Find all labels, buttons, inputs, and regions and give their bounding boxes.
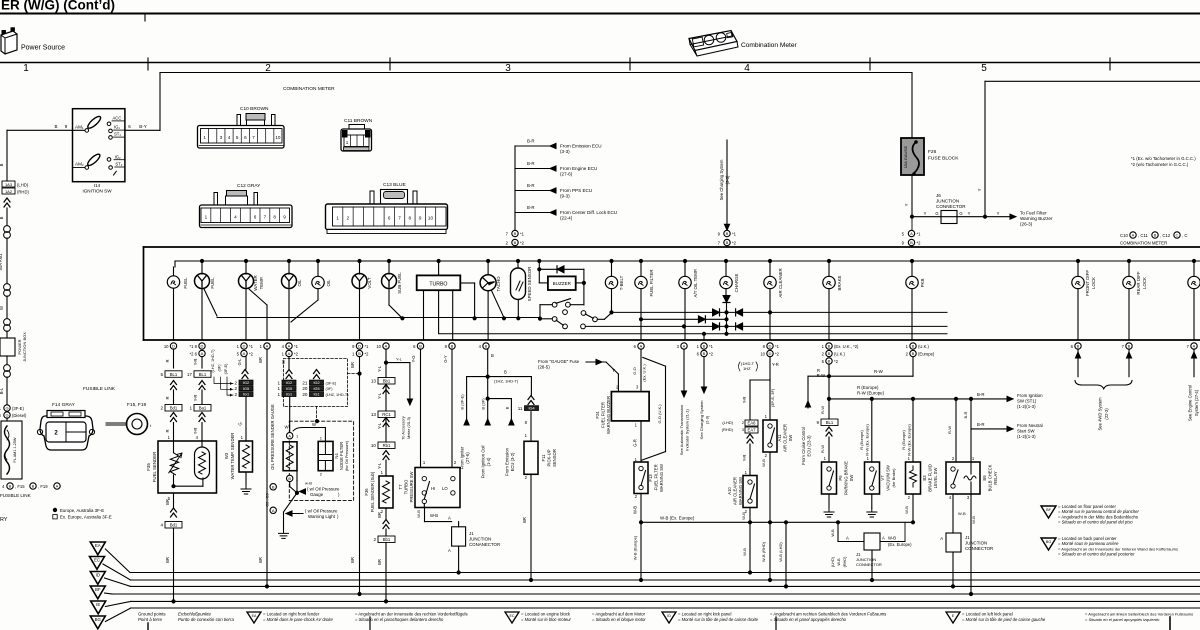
svg-text:TURBO: TURBO bbox=[404, 479, 409, 494]
svg-text:TEMP.: TEMP. bbox=[259, 277, 264, 290]
svg-text:(Ex. U.K.): (Ex. U.K.) bbox=[642, 364, 647, 382]
svg-text:A: A bbox=[846, 536, 849, 541]
svg-text:(1-2)(1-3): (1-2)(1-3) bbox=[1017, 404, 1036, 409]
svg-text:From Engine ECU: From Engine ECU bbox=[560, 166, 597, 171]
wire 5th column drop bbox=[984, 81, 986, 216]
svg-text:*2: *2 bbox=[834, 359, 839, 364]
svg-text:R-W (Europe): R-W (Europe) bbox=[857, 391, 885, 396]
wire fuel diag bbox=[204, 289, 217, 316]
legend EC engine block bbox=[505, 612, 519, 623]
svg-text:10: 10 bbox=[164, 344, 169, 349]
vacuum sw V7 box bbox=[865, 462, 880, 494]
svg-text:RY: RY bbox=[0, 517, 8, 523]
svg-text:WATER: WATER bbox=[253, 275, 258, 290]
svg-text:*2: *2 bbox=[709, 351, 714, 356]
fusible link FL AM1 box bbox=[6, 418, 8, 421]
svg-text:B: B bbox=[419, 344, 422, 349]
svg-text:G: G bbox=[238, 422, 243, 425]
svg-text:P6: P6 bbox=[838, 475, 843, 481]
svg-text:Y-R: Y-R bbox=[193, 395, 198, 402]
svg-text:A: A bbox=[288, 351, 291, 356]
gauge OIL main bbox=[287, 259, 290, 262]
svg-text:FRONT DIFF: FRONT DIFF bbox=[1085, 270, 1090, 296]
svg-text:Y-L: Y-L bbox=[377, 422, 382, 429]
wire drop to ignition switch bbox=[159, 73, 161, 131]
junction pair circles bbox=[6, 356, 8, 364]
svg-text:B: B bbox=[703, 344, 706, 349]
svg-text:*1: *1 bbox=[709, 344, 714, 349]
svg-text:ACC: ACC bbox=[113, 115, 122, 120]
svg-text:(1HZ, 1HD-T): (1HZ, 1HD-T) bbox=[326, 393, 350, 397]
svg-text:= Monté sur le bloc-moteur: = Monté sur le bloc-moteur bbox=[521, 617, 572, 622]
connector 1A3 (LHD) bbox=[2, 181, 15, 187]
svg-text:TACHO: TACHO bbox=[496, 276, 501, 292]
svg-text:B9: B9 bbox=[982, 475, 987, 481]
svg-text:13: 13 bbox=[371, 379, 377, 384]
svg-text:Indicator System (21-1): Indicator System (21-1) bbox=[685, 409, 690, 451]
column header rule bbox=[0, 62, 1200, 64]
svg-text:, C12: , C12 bbox=[1160, 233, 1171, 238]
sub fuel sender F36 box bbox=[379, 476, 393, 508]
svg-text:1: 1 bbox=[203, 135, 206, 140]
svg-text:*2: *2 bbox=[365, 351, 370, 356]
svg-text:B: B bbox=[912, 351, 915, 356]
connector stack IG 21/20 bbox=[314, 370, 320, 379]
svg-text:AM₁: AM₁ bbox=[75, 125, 84, 130]
svg-text:BRAKE FLUID: BRAKE FLUID bbox=[928, 464, 933, 491]
svg-text:B-R: B-R bbox=[527, 139, 535, 144]
svg-text:IE: IE bbox=[96, 602, 100, 607]
svg-text:B: B bbox=[828, 359, 831, 364]
gauge WATER TEMP bbox=[244, 259, 247, 262]
svg-text:JUNCTION: JUNCTION bbox=[965, 541, 987, 546]
svg-text:G: G bbox=[959, 211, 962, 216]
ground triangle EA bbox=[90, 542, 105, 555]
fuse 50A AM1 bbox=[6, 238, 8, 283]
svg-text:From Cruise Control: From Cruise Control bbox=[801, 427, 806, 465]
svg-text:B: B bbox=[451, 344, 454, 349]
svg-text:R: R bbox=[165, 359, 170, 362]
air cleaner warning sw A10 box bbox=[743, 476, 757, 508]
water temp sender W3 box bbox=[239, 441, 253, 472]
wire to IG4 bbox=[530, 377, 532, 395]
wire fuse drop bbox=[911, 73, 913, 138]
vacuum sw column bbox=[871, 399, 873, 462]
wire wb europe bbox=[640, 494, 642, 581]
branch cruise control bbox=[807, 376, 809, 408]
svg-text:1A2: 1A2 bbox=[5, 189, 13, 194]
svg-text:W-B (Europe): W-B (Europe) bbox=[633, 535, 638, 560]
svg-text:*1 8: *1 8 bbox=[190, 344, 198, 349]
svg-text:6: 6 bbox=[244, 135, 247, 140]
svg-text:From Emission ECU: From Emission ECU bbox=[560, 144, 602, 149]
wire yl column bbox=[385, 349, 387, 378]
wire band lineC bottom bbox=[439, 333, 947, 335]
svg-text:Y-R: Y-R bbox=[742, 397, 747, 404]
branch from igniter bbox=[466, 377, 468, 419]
gauge PKB bbox=[910, 259, 913, 262]
svg-text:BUZZER: BUZZER bbox=[553, 281, 572, 286]
svg-text:Ba1: Ba1 bbox=[199, 406, 207, 411]
svg-text:= Angebracht am rechten Seite: = Angebracht am rechten Seitenblech des … bbox=[770, 612, 886, 617]
svg-text:AIR CLEANER: AIR CLEANER bbox=[783, 424, 788, 452]
svg-text:= Angebracht am linken Seiten: = Angebracht am linken Seitenblech des V… bbox=[1085, 612, 1193, 617]
svg-text:Point à terre: Point à terre bbox=[138, 617, 162, 622]
wire see charging below bbox=[703, 357, 705, 389]
svg-text:BR: BR bbox=[522, 517, 527, 523]
svg-text:BG: BG bbox=[1046, 540, 1052, 544]
tick below ground points bbox=[147, 623, 149, 630]
svg-text:= Located on right front fend: = Located on right front fender bbox=[263, 612, 320, 617]
svg-text:BF: BF bbox=[1046, 508, 1052, 512]
svg-text:BL1: BL1 bbox=[199, 372, 207, 377]
wire turbo right bbox=[460, 282, 474, 284]
svg-text:D: D bbox=[201, 344, 204, 349]
gauge FRONT DIFF LOCK bbox=[1076, 259, 1079, 262]
svg-text:From “GAUGE” Fuse: From “GAUGE” Fuse bbox=[538, 359, 580, 364]
note BF located on floor panel center bbox=[1041, 506, 1056, 518]
svg-text:TURBO: TURBO bbox=[429, 281, 447, 287]
svg-text:*1: *1 bbox=[775, 344, 780, 349]
svg-text:B: B bbox=[703, 351, 706, 356]
pins 5/9 into meter bbox=[910, 215, 913, 218]
svg-text:1: 1 bbox=[277, 380, 280, 385]
svg-text:9: 9 bbox=[419, 216, 422, 221]
svg-text:20: 20 bbox=[302, 386, 308, 391]
svg-text:= Situado en el parachoques d: = Situado en el parachoques delantero de… bbox=[355, 617, 444, 622]
svg-text:CHARGE: CHARGE bbox=[734, 274, 739, 293]
branch from emission ecu bbox=[488, 398, 512, 400]
svg-text:W-B: W-B bbox=[837, 558, 841, 566]
svg-text:OIL PRESSURE SENDER GAUGE: OIL PRESSURE SENDER GAUGE bbox=[270, 404, 275, 470]
svg-text:A: A bbox=[1132, 233, 1135, 238]
wire buzzer top bbox=[538, 259, 541, 262]
svg-text:ER (W/G) (Cont’d): ER (W/G) (Cont’d) bbox=[1, 0, 115, 13]
svg-text:SW: SW bbox=[788, 435, 793, 442]
oil pressure pin A bbox=[289, 397, 291, 433]
svg-text:D: D bbox=[769, 344, 772, 349]
svg-text:1: 1 bbox=[23, 63, 29, 74]
svg-text:*1: *1 bbox=[520, 232, 525, 237]
svg-text:Power Source: Power Source bbox=[21, 45, 65, 52]
svg-text:A: A bbox=[683, 344, 686, 349]
wire see automatic transmission bbox=[683, 349, 685, 392]
wire j1 mid down bbox=[871, 550, 873, 580]
ground bus line 3 bbox=[131, 585, 1200, 587]
svg-text:FUSIBLE LINK: FUSIBLE LINK bbox=[83, 386, 116, 392]
svg-text:C13 BLUE: C13 BLUE bbox=[383, 182, 406, 188]
svg-text:FL AM1 1.25W: FL AM1 1.25W bbox=[13, 437, 17, 462]
svg-text:SW (ST1): SW (ST1) bbox=[1017, 399, 1037, 404]
svg-text:W-B (Ex. Europe): W-B (Ex. Europe) bbox=[660, 516, 695, 521]
svg-text:D: D bbox=[172, 344, 175, 349]
svg-text:R-W: R-W bbox=[820, 445, 825, 453]
svg-text:A: A bbox=[940, 536, 943, 541]
svg-text:Ground points: Ground points bbox=[138, 612, 166, 617]
svg-text:W-B: W-B bbox=[761, 459, 766, 467]
svg-text:B: B bbox=[358, 351, 361, 356]
gauge TACHO bbox=[487, 259, 490, 262]
svg-text:C: C bbox=[1176, 233, 1179, 238]
svg-text:(22-4): (22-4) bbox=[560, 216, 573, 221]
wire fuse to junction bbox=[911, 175, 913, 217]
wire subfuel diag bbox=[389, 305, 402, 318]
svg-text:17: 17 bbox=[187, 372, 193, 377]
svg-text:B (3F-E): B (3F-E) bbox=[460, 394, 465, 410]
svg-text:15A GAUGE: 15A GAUGE bbox=[903, 145, 908, 168]
charge diode cluster bbox=[723, 296, 730, 303]
svg-text:G: G bbox=[5, 406, 8, 411]
svg-text:(LHD): (LHD) bbox=[17, 183, 29, 188]
svg-text:J1: J1 bbox=[469, 531, 474, 536]
svg-text:B: B bbox=[0, 216, 4, 219]
wire yr column bbox=[201, 357, 203, 369]
svg-text:A/T OIL TEMP.: A/T OIL TEMP. bbox=[693, 269, 698, 298]
gauge AIR CLEANER bbox=[768, 259, 771, 262]
svg-text:PICK-UP: PICK-UP bbox=[547, 449, 552, 466]
svg-text:B (3F): B (3F) bbox=[481, 398, 486, 410]
wire see charging system bbox=[726, 140, 728, 225]
svg-text:F13: F13 bbox=[648, 474, 653, 482]
svg-text:CONNECTOR: CONNECTOR bbox=[965, 546, 993, 551]
svg-text:(U.K.): (U.K.) bbox=[918, 344, 930, 349]
svg-text:BL1: BL1 bbox=[826, 420, 834, 425]
legend ID right kick panel bbox=[662, 612, 676, 623]
brake fluid column bbox=[912, 399, 914, 462]
svg-text:= Situado en el bloque motor: = Situado en el bloque motor bbox=[592, 617, 646, 622]
legend IE left kick panel bbox=[946, 612, 960, 623]
svg-text:ST₂: ST₂ bbox=[115, 162, 122, 167]
svg-text:B-R: B-R bbox=[977, 422, 985, 427]
svg-text:*1: *1 bbox=[917, 232, 922, 237]
ring terminal F15 F19 bbox=[106, 414, 152, 435]
wire b3 wb bbox=[912, 494, 914, 522]
svg-text:BR: BR bbox=[350, 362, 355, 368]
svg-text:PKB: PKB bbox=[920, 279, 925, 288]
svg-text:R (Europe): R (Europe) bbox=[859, 430, 864, 450]
svg-text:*2: *2 bbox=[520, 241, 525, 246]
wire ignition B-Y right bbox=[125, 129, 160, 131]
svg-text:*1: *1 bbox=[294, 344, 299, 349]
fuel filter warning switch F13 box bbox=[634, 462, 648, 494]
svg-text:IG1: IG1 bbox=[313, 393, 319, 397]
ground triangle BF bbox=[90, 586, 105, 599]
ground triangle BG bbox=[90, 616, 105, 629]
wire volt column bbox=[359, 357, 361, 595]
svg-text:BR: BR bbox=[165, 499, 170, 505]
branch from PPS ECU bbox=[515, 190, 556, 192]
gauge FUEL main bbox=[200, 259, 203, 262]
svg-text:W-B: W-B bbox=[416, 510, 421, 518]
junction pair circles bbox=[4, 319, 11, 326]
svg-text:WARNING SW: WARNING SW bbox=[738, 477, 743, 505]
svg-text:50A AM1: 50A AM1 bbox=[0, 253, 3, 270]
svg-text:*2: *2 bbox=[917, 241, 922, 246]
svg-text:AIR CLEANER: AIR CLEANER bbox=[778, 268, 783, 297]
svg-text:(26-3): (26-3) bbox=[1020, 222, 1033, 227]
wire speed sensor bottom bbox=[517, 300, 519, 319]
vacuum sw ground bbox=[871, 494, 873, 508]
wire watertemp diag bbox=[249, 289, 267, 305]
wire from-ECU vertical bbox=[514, 146, 516, 231]
svg-text:A: A bbox=[448, 516, 451, 521]
svg-text:W-B: W-B bbox=[904, 506, 909, 514]
svg-text:B: B bbox=[912, 344, 915, 349]
svg-text:B: B bbox=[504, 406, 509, 409]
svg-text:1HZ: 1HZ bbox=[743, 366, 751, 371]
svg-text:= Angebracht auf dem Motor: = Angebracht auf dem Motor bbox=[592, 612, 646, 617]
svg-text:2: 2 bbox=[347, 216, 350, 221]
svg-text:(U.K.): (U.K.) bbox=[834, 351, 846, 356]
svg-text:5: 5 bbox=[981, 63, 987, 74]
svg-text:6: 6 bbox=[388, 216, 391, 221]
svg-text:AM₂: AM₂ bbox=[75, 162, 84, 167]
wire bbox=[6, 208, 8, 225]
svg-text:From Center Diff. Lock ECU: From Center Diff. Lock ECU bbox=[560, 210, 617, 215]
svg-text:20: 20 bbox=[302, 392, 308, 397]
svg-text:A: A bbox=[640, 344, 643, 349]
svg-text:BRAKE: BRAKE bbox=[837, 275, 842, 290]
dashed box IG stacks bbox=[284, 359, 348, 407]
svg-text:WARNING BUZZER: WARNING BUZZER bbox=[606, 396, 611, 434]
svg-text:B: B bbox=[726, 240, 729, 245]
meter odo switches bbox=[583, 283, 585, 305]
svg-text:A: A bbox=[272, 508, 275, 513]
svg-text:Warning Buzzer: Warning Buzzer bbox=[1020, 216, 1053, 221]
svg-text:G-O: G-O bbox=[632, 367, 637, 375]
svg-text:= Situado en el centro del pa: = Situado en el centro del panel posteri… bbox=[1058, 552, 1135, 557]
wire fuel sender column bbox=[173, 349, 175, 368]
svg-text:BL1: BL1 bbox=[170, 372, 178, 377]
svg-text:B: B bbox=[514, 231, 517, 236]
svg-text:Y-L: Y-L bbox=[396, 356, 403, 361]
fuse block F26 15A GAUGE bbox=[901, 138, 924, 175]
svg-text:A: A bbox=[882, 536, 885, 541]
svg-text:1: 1 bbox=[277, 392, 280, 397]
svg-text:W-B: W-B bbox=[742, 548, 747, 556]
svg-text:A: A bbox=[201, 351, 204, 356]
svg-text:PRESSURE SW: PRESSURE SW bbox=[409, 471, 414, 502]
svg-text:R-W: R-W bbox=[820, 406, 825, 414]
svg-text:(1HZ, 1HD-T): (1HZ, 1HD-T) bbox=[211, 349, 215, 373]
oil pressure resistor bbox=[283, 442, 297, 471]
svg-text:(RHD): (RHD) bbox=[722, 427, 734, 432]
wire pick-up ground bbox=[530, 474, 532, 580]
svg-text:(for Oil Pressure): (for Oil Pressure) bbox=[344, 440, 349, 471]
svg-text:SPEED SENSOR: SPEED SENSOR bbox=[527, 267, 532, 302]
svg-text:EA: EA bbox=[95, 543, 101, 548]
svg-text:BR: BR bbox=[165, 557, 170, 563]
svg-text:(27-6): (27-6) bbox=[560, 172, 573, 177]
svg-text:A: A bbox=[448, 548, 451, 553]
svg-text:CONNECTOR: CONNECTOR bbox=[936, 204, 966, 209]
wire B-L bbox=[6, 377, 8, 404]
svg-text:4: 4 bbox=[228, 135, 231, 140]
br wire neutral start bbox=[970, 399, 972, 429]
meter internal bus bbox=[175, 260, 1200, 262]
svg-text:BR: BR bbox=[377, 559, 382, 565]
note w oil pressure gauge bbox=[300, 489, 306, 494]
svg-text:B-R: B-R bbox=[527, 205, 535, 210]
meter BUZZER box bbox=[538, 269, 540, 283]
pin 1 G (3F-E) bbox=[4, 405, 10, 411]
svg-text:B-R: B-R bbox=[963, 411, 968, 418]
svg-text:G: G bbox=[935, 211, 938, 216]
meter band outline bbox=[144, 246, 1200, 248]
wire b9 to J1 bbox=[952, 494, 954, 533]
speed sensor oval bbox=[516, 259, 519, 262]
wire gl column bbox=[245, 357, 247, 370]
wire oil diag bbox=[291, 300, 318, 322]
svg-text:From Neutral: From Neutral bbox=[1017, 423, 1043, 428]
column ticks bbox=[147, 58, 149, 70]
svg-text:R: R bbox=[165, 429, 170, 432]
svg-text:R (Europe): R (Europe) bbox=[857, 385, 879, 390]
svg-text:BR: BR bbox=[377, 512, 382, 518]
ground triangle IE bbox=[91, 601, 106, 614]
note europe australia bbox=[53, 508, 57, 512]
svg-text:R: R bbox=[165, 396, 170, 399]
svg-text:*2: *2 bbox=[775, 351, 780, 356]
svg-text:w-B: w-B bbox=[305, 481, 312, 486]
svg-text:W-B: W-B bbox=[741, 512, 746, 520]
svg-text:Bd1: Bd1 bbox=[170, 523, 178, 528]
svg-text:JUNCTION: JUNCTION bbox=[469, 537, 491, 542]
svg-text:(Ex. U.K., *2): (Ex. U.K., *2) bbox=[834, 344, 859, 349]
svg-text:V7: V7 bbox=[880, 475, 885, 481]
turbo pressure switch T7 box bbox=[415, 468, 460, 508]
wire sub fuel ground bbox=[385, 508, 387, 519]
air cleaner sw A11 box bbox=[763, 420, 777, 452]
gauge T-BELT bbox=[610, 259, 613, 262]
svg-text:1: 1 bbox=[277, 386, 280, 391]
svg-text:9: 9 bbox=[816, 420, 819, 425]
svg-text:(2-3): (2-3) bbox=[705, 415, 710, 424]
svg-text:BR: BR bbox=[258, 557, 263, 563]
svg-text:SENSOR: SENSOR bbox=[552, 449, 557, 467]
svg-text:Start SW: Start SW bbox=[1017, 429, 1035, 434]
parking brake ground bbox=[828, 494, 830, 508]
svg-text:(1-4): (1-4) bbox=[486, 457, 491, 466]
svg-text:CONANECTOR: CONANECTOR bbox=[469, 542, 500, 547]
svg-text:To Accessory: To Accessory bbox=[401, 416, 406, 440]
svg-text:FUEL FILTER: FUEL FILTER bbox=[601, 402, 606, 428]
svg-text:RC1: RC1 bbox=[382, 412, 391, 417]
svg-text:BF: BF bbox=[95, 587, 101, 592]
wire to BL1 bbox=[828, 399, 830, 419]
connector F14 drawing bbox=[37, 411, 94, 451]
svg-text:OIL: OIL bbox=[326, 279, 331, 287]
svg-text:*1 (Ex. w/o Tachometer in G.C.: *1 (Ex. w/o Tachometer in G.C.C.) bbox=[1131, 156, 1196, 161]
fuel sender variable resistor bbox=[173, 441, 175, 453]
svg-text:C10: C10 bbox=[1120, 233, 1128, 238]
svg-text:= Monté dans le pare-chock AV: = Monté dans le pare-chock AV droite bbox=[263, 617, 333, 622]
svg-text:B: B bbox=[32, 484, 35, 489]
svg-text:B: B bbox=[272, 485, 275, 490]
svg-text:A: A bbox=[56, 484, 59, 489]
svg-text:B: B bbox=[1154, 233, 1157, 238]
svg-text:F11: F11 bbox=[541, 454, 546, 462]
svg-text:EA6: EA6 bbox=[748, 421, 757, 426]
svg-text:FUEL FILTER: FUEL FILTER bbox=[649, 269, 654, 296]
oil pressure circled pins C2 C3 bbox=[270, 484, 276, 490]
svg-text:(3P-E, 3F): (3P-E, 3F) bbox=[770, 388, 775, 407]
svg-text:I14: I14 bbox=[94, 183, 101, 188]
svg-text:( w/ Oil Pressure: ( w/ Oil Pressure bbox=[307, 487, 340, 492]
wire pkb drop bbox=[912, 357, 914, 376]
svg-text:= Situado en el centro del pa: = Situado en el centro del panel del pis… bbox=[1058, 520, 1133, 525]
svg-text:COMBINATION METER: COMBINATION METER bbox=[283, 86, 335, 92]
